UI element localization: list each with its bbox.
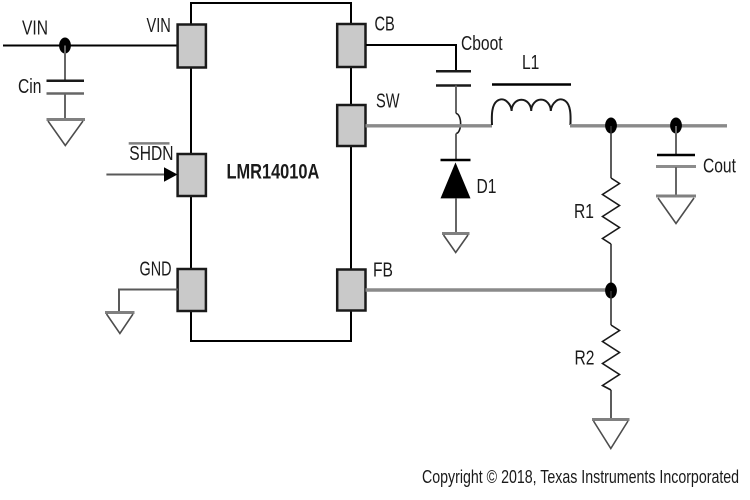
wire SHDN input arrow xyxy=(106,167,177,182)
inductor L1 xyxy=(492,85,571,126)
capacitor Cboot xyxy=(436,71,471,85)
svg-text:L1: L1 xyxy=(522,51,539,73)
ground (R2) xyxy=(592,420,630,449)
pin GND xyxy=(178,269,206,311)
ground (Cout) xyxy=(656,196,696,224)
svg-text:Copyright © 2018, Texas Instru: Copyright © 2018, Texas Instruments Inco… xyxy=(422,467,739,487)
wire Cin vertical xyxy=(64,46,66,81)
svg-text:LMR14010A: LMR14010A xyxy=(227,159,320,182)
diode D1 xyxy=(441,160,471,198)
node VOUT junction 2 xyxy=(670,118,682,134)
svg-text:Cin: Cin xyxy=(18,75,41,97)
wire VIN input xyxy=(3,45,178,47)
svg-text:R1: R1 xyxy=(574,200,594,222)
ground (D1) xyxy=(442,234,470,253)
ground (Cin) xyxy=(47,120,86,146)
svg-text:CB: CB xyxy=(375,12,395,35)
wire hop to D1 xyxy=(455,134,457,160)
capacitor Cin xyxy=(47,81,85,94)
resistor R2 xyxy=(603,291,620,419)
svg-text:SW: SW xyxy=(376,89,400,112)
svg-text:VIN: VIN xyxy=(147,14,171,37)
wire CB to Cboot xyxy=(366,45,456,71)
wire crossover hop at SW xyxy=(456,114,461,134)
pin CB xyxy=(337,24,365,67)
svg-text:VIN: VIN xyxy=(22,17,48,39)
pin SW xyxy=(337,105,365,146)
svg-text:Cout: Cout xyxy=(703,155,736,177)
wire Cboot down to crossover xyxy=(455,86,457,114)
wire L1 to output xyxy=(570,124,727,127)
pin SHDN xyxy=(178,154,206,196)
svg-text:GND: GND xyxy=(140,257,172,280)
resistor R1 xyxy=(603,126,620,290)
svg-text:SHDN: SHDN xyxy=(129,142,173,164)
ground (GND pin) xyxy=(105,313,135,334)
node FB junction xyxy=(605,283,617,299)
node VOUT junction 1 xyxy=(605,118,617,134)
wire D1 to ground xyxy=(455,198,457,233)
svg-text:D1: D1 xyxy=(477,175,497,197)
pin label SHDN (with overline) xyxy=(129,142,174,164)
node VIN junction xyxy=(59,38,71,54)
pin VIN xyxy=(178,25,206,68)
svg-text:R2: R2 xyxy=(575,347,595,369)
svg-text:Cboot: Cboot xyxy=(461,32,503,54)
wire FB net xyxy=(366,288,612,291)
svg-text:FB: FB xyxy=(373,259,393,281)
wire Cin to ground xyxy=(64,94,66,120)
op-amp U1 body (IC LMR14010A) xyxy=(191,3,351,341)
wire SW to L1 xyxy=(366,124,493,127)
capacitor Cout xyxy=(656,126,696,196)
pin FB xyxy=(337,270,365,311)
wire GND to ground xyxy=(119,290,178,313)
